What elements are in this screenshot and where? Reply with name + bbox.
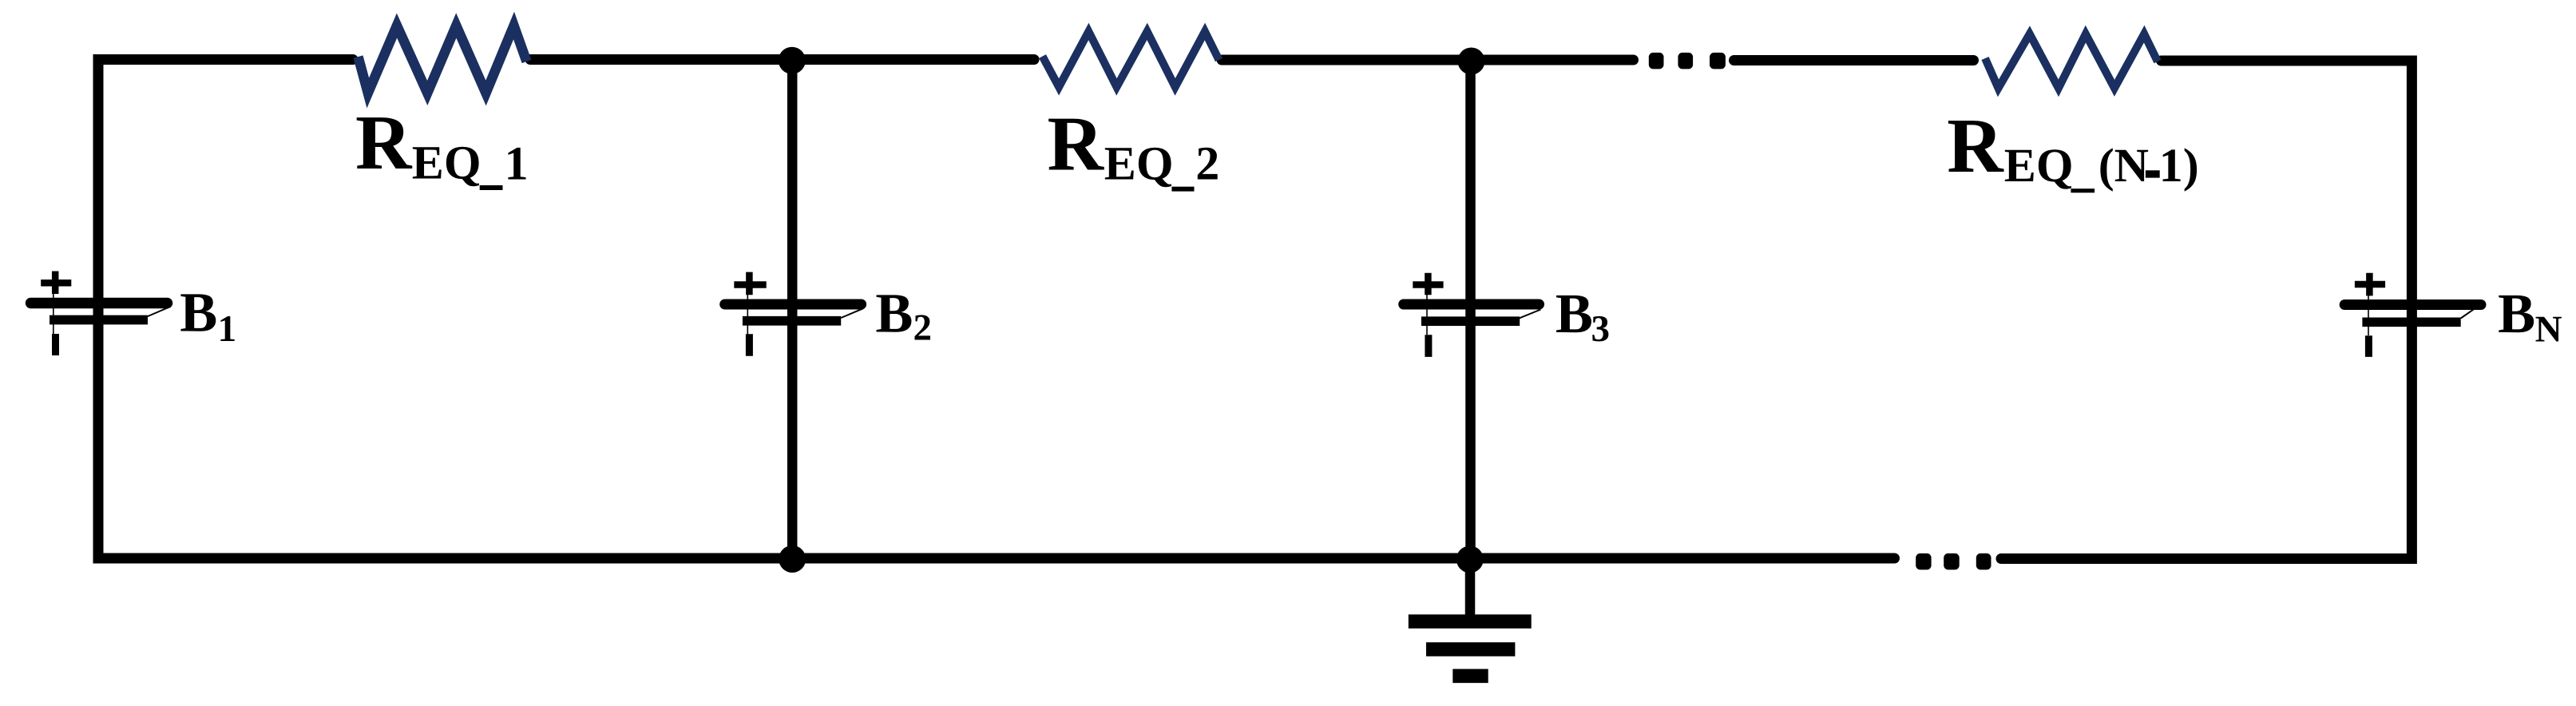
battery B1 [31, 272, 170, 356]
svg-text:EQ: EQ [1104, 137, 1174, 190]
B2 minus tick [746, 334, 753, 356]
B2 polarity guide line [747, 285, 748, 335]
ground bar top [1409, 614, 1532, 629]
svg-text:B: B [1556, 283, 1593, 345]
ground bar middle [1426, 642, 1515, 656]
B2 plus sign vertical [746, 272, 753, 295]
BN plus sign horizontal [2355, 281, 2385, 288]
svg-text:EQ: EQ [2004, 139, 2074, 192]
svg-text:EQ: EQ [412, 137, 482, 189]
wire right loop (top run after R_EQ_(N-1), right side, bottom run to ellipsis) [2001, 61, 2412, 559]
resistor R_EQ_1 [359, 26, 527, 93]
svg-text:3: 3 [1591, 308, 1611, 350]
svg-text:B: B [180, 281, 217, 343]
label R_EQ_(N-1) subscript hyphen [2146, 170, 2160, 177]
svg-text:2: 2 [1195, 137, 1219, 190]
svg-text:(N: (N [2098, 139, 2149, 192]
BN minus tick [2365, 335, 2372, 357]
svg-text:B: B [2498, 283, 2535, 345]
B1 minus tick [52, 334, 59, 355]
B2 plate connector line [841, 308, 863, 318]
bottom ellipsis dot 2 [1944, 553, 1960, 570]
svg-text:R: R [1947, 103, 2004, 189]
node junction dot top B2 [779, 47, 806, 74]
B3 plus sign horizontal [1413, 281, 1443, 288]
wire top segment between top ellipsis and R_EQ_(N-1) [1734, 55, 1974, 65]
wire top segment between R_EQ_2 and top ellipsis [1222, 55, 1634, 65]
top wire continuation ellipsis [1649, 53, 1726, 69]
ground [1409, 563, 1532, 676]
label R_EQ_1 subscript underscore [480, 185, 503, 190]
svg-text:B: B [875, 283, 913, 345]
svg-text:1: 1 [505, 137, 529, 190]
B3 plus sign vertical [1425, 273, 1432, 295]
BN positive plate [2344, 299, 2481, 310]
battery B3 [1404, 273, 1541, 357]
B1 plate connector line [147, 307, 169, 317]
B1 plus sign horizontal [41, 280, 71, 287]
node junction dot top B3 [1458, 48, 1485, 75]
resistor R_EQ_(N-1) [1985, 34, 2158, 89]
B1 polarity guide line [53, 284, 54, 335]
B3 negative plate [1421, 316, 1520, 326]
label R_EQ_2 subscript underscore [1171, 187, 1194, 192]
node junction dot bottom B3 ground [1456, 545, 1484, 573]
B3 positive plate [1404, 299, 1540, 310]
bottom wire continuation ellipsis [1916, 553, 1991, 570]
bottom ellipsis dot 1 [1916, 553, 1931, 570]
wire top segment between R_EQ_1 and R_EQ_2 [530, 54, 1034, 65]
BN plate connector line [2461, 309, 2474, 318]
svg-text:R: R [1048, 101, 1105, 188]
top ellipsis dot 3 [1710, 53, 1726, 69]
B1 positive plate [31, 298, 168, 309]
svg-text:1: 1 [218, 308, 237, 350]
B3 minus tick [1425, 335, 1432, 357]
node junction dot bottom B2 [779, 545, 806, 573]
ground stub wire [1465, 563, 1476, 615]
BN polarity guide line [2368, 285, 2369, 335]
battery B2 [725, 272, 863, 356]
svg-text:N: N [2535, 308, 2562, 350]
B3 polarity guide line [1426, 285, 1428, 335]
wire left loop (top-left run, left side, bottom run to ellipsis) [98, 60, 1895, 559]
battery BN [2344, 273, 2481, 357]
wire vertical branch B2 [787, 60, 798, 558]
B1 negative plate [50, 315, 148, 325]
top ellipsis dot 1 [1649, 53, 1664, 69]
BN plus sign vertical [2366, 273, 2373, 296]
B2 negative plate [743, 316, 841, 326]
B2 plus sign horizontal [734, 281, 766, 288]
B2 positive plate [725, 299, 862, 310]
bottom ellipsis dot 3 [1976, 553, 1991, 570]
svg-text:1): 1) [2159, 139, 2199, 192]
B3 plate connector line [1520, 310, 1541, 319]
label R_EQ_(N-1) subscript underscore [2071, 188, 2094, 192]
B1 plus sign vertical [52, 272, 59, 295]
ground bar bottom [1452, 669, 1488, 684]
wire vertical branch B3 [1465, 61, 1476, 558]
BN negative plate [2362, 317, 2460, 327]
svg-text:R: R [355, 100, 413, 186]
top ellipsis dot 2 [1678, 53, 1693, 69]
resistor R_EQ_2 [1043, 31, 1219, 87]
svg-text:2: 2 [913, 307, 933, 349]
